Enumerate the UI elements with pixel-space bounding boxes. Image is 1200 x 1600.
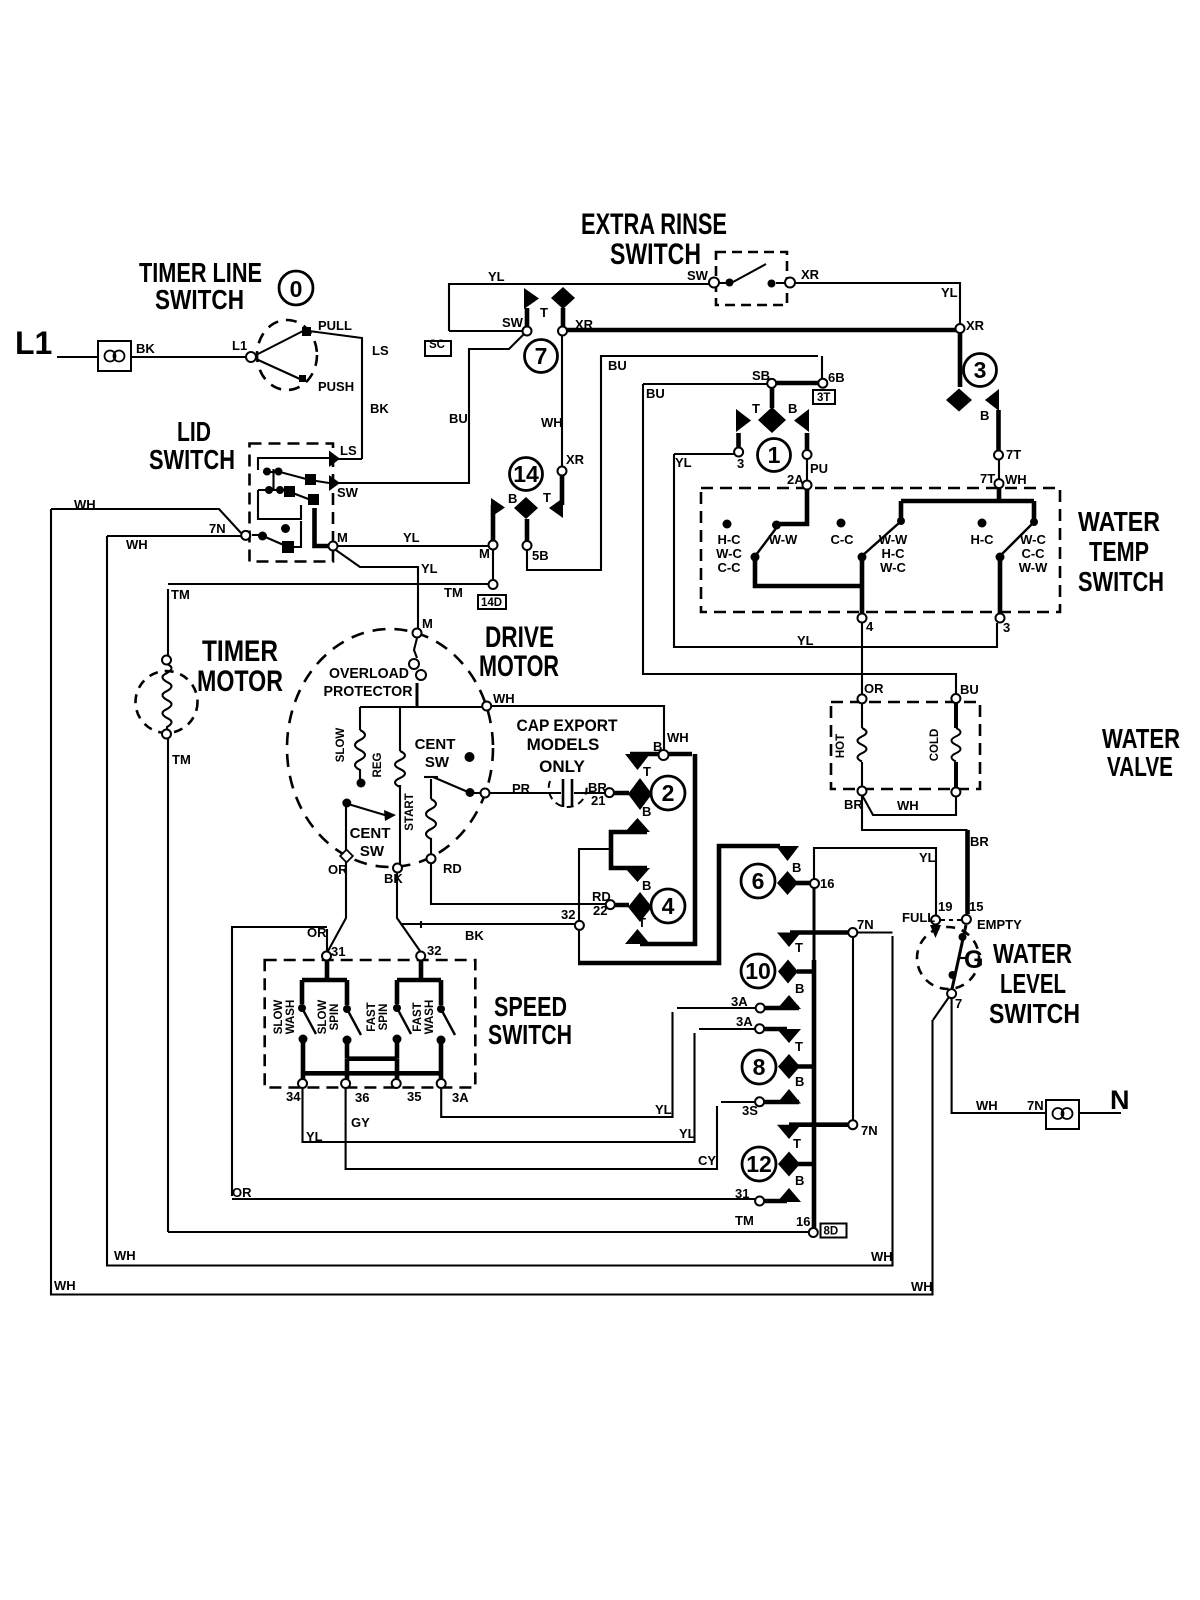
svg-text:WASH: WASH <box>285 1000 297 1035</box>
svg-text:LID: LID <box>177 416 211 447</box>
svg-text:BU: BU <box>960 682 979 697</box>
svg-text:MODELS: MODELS <box>527 735 600 754</box>
svg-text:7: 7 <box>955 996 962 1011</box>
svg-text:12: 12 <box>746 1151 772 1177</box>
svg-text:14: 14 <box>513 461 539 487</box>
svg-text:B: B <box>795 1074 804 1089</box>
svg-text:BK: BK <box>465 928 484 943</box>
svg-text:TEMP: TEMP <box>1089 536 1149 567</box>
svg-text:YL: YL <box>421 561 438 576</box>
svg-text:OR: OR <box>307 925 327 940</box>
svg-text:M: M <box>337 530 348 545</box>
svg-text:W-W: W-W <box>879 532 908 547</box>
svg-text:TM: TM <box>444 585 463 600</box>
svg-text:PR: PR <box>512 781 531 796</box>
svg-text:YL: YL <box>403 530 420 545</box>
svg-text:BU: BU <box>646 386 665 401</box>
svg-text:BR: BR <box>844 797 863 812</box>
svg-text:OR: OR <box>864 681 884 696</box>
svg-text:WH: WH <box>114 1248 136 1263</box>
svg-text:OR: OR <box>232 1185 252 1200</box>
svg-text:8D: 8D <box>824 1226 839 1238</box>
svg-text:W-C: W-C <box>1020 532 1046 547</box>
svg-text:B: B <box>795 981 804 996</box>
svg-text:3: 3 <box>1003 620 1010 635</box>
svg-text:COLD: COLD <box>929 729 941 762</box>
svg-text:21: 21 <box>591 793 605 808</box>
svg-text:BK: BK <box>384 871 403 886</box>
svg-text:H-C: H-C <box>970 532 994 547</box>
svg-text:6: 6 <box>752 868 765 894</box>
svg-text:SWITCH: SWITCH <box>488 1019 572 1050</box>
svg-text:WH: WH <box>667 730 689 745</box>
svg-text:0: 0 <box>290 276 303 302</box>
svg-text:T: T <box>543 490 551 505</box>
svg-text:SW: SW <box>425 754 450 771</box>
svg-text:B: B <box>653 739 662 754</box>
svg-text:L1: L1 <box>15 325 52 361</box>
svg-text:16: 16 <box>796 1214 810 1229</box>
svg-text:T: T <box>752 401 760 416</box>
svg-text:3A: 3A <box>452 1090 469 1105</box>
svg-text:YL: YL <box>679 1126 696 1141</box>
svg-text:35: 35 <box>407 1089 421 1104</box>
svg-text:YL: YL <box>941 285 958 300</box>
svg-text:T: T <box>795 1039 803 1054</box>
svg-text:OVERLOAD: OVERLOAD <box>329 665 409 682</box>
svg-text:3A: 3A <box>736 1014 753 1029</box>
svg-text:B: B <box>788 401 797 416</box>
svg-text:PROTECTOR: PROTECTOR <box>324 683 413 700</box>
svg-text:VALVE: VALVE <box>1107 751 1173 782</box>
svg-text:TIMER: TIMER <box>202 635 278 668</box>
svg-text:WH: WH <box>871 1249 893 1264</box>
svg-text:7: 7 <box>535 343 548 369</box>
svg-text:7N: 7N <box>1027 1098 1044 1113</box>
svg-text:B: B <box>792 860 801 875</box>
svg-text:GY: GY <box>351 1115 370 1130</box>
svg-text:OR: OR <box>328 862 348 877</box>
svg-text:BK: BK <box>136 341 155 356</box>
svg-text:BU: BU <box>449 411 468 426</box>
svg-text:SC: SC <box>429 339 445 351</box>
svg-text:31: 31 <box>331 944 345 959</box>
svg-text:B: B <box>795 1173 804 1188</box>
svg-text:ONLY: ONLY <box>539 757 585 776</box>
svg-text:19: 19 <box>938 899 952 914</box>
svg-text:TM: TM <box>735 1213 754 1228</box>
svg-text:4: 4 <box>866 619 874 634</box>
svg-text:WH: WH <box>493 691 515 706</box>
svg-text:RD: RD <box>592 889 611 904</box>
svg-text:SWITCH: SWITCH <box>610 238 701 271</box>
svg-text:EMPTY: EMPTY <box>977 917 1022 932</box>
svg-text:L1: L1 <box>232 338 247 353</box>
svg-text:M: M <box>479 546 490 561</box>
svg-text:FAST: FAST <box>412 1002 424 1031</box>
svg-text:T: T <box>643 764 651 779</box>
svg-text:CAP EXPORT: CAP EXPORT <box>517 716 619 735</box>
svg-text:B: B <box>642 878 651 893</box>
svg-text:22: 22 <box>593 903 607 918</box>
svg-text:YL: YL <box>797 633 814 648</box>
svg-text:BK: BK <box>370 401 389 416</box>
svg-text:4: 4 <box>662 893 675 919</box>
svg-text:LEVEL: LEVEL <box>1000 968 1066 999</box>
svg-text:SWITCH: SWITCH <box>1078 566 1164 597</box>
svg-text:START: START <box>404 793 416 830</box>
svg-text:T: T <box>638 915 646 930</box>
svg-text:YL: YL <box>306 1129 323 1144</box>
svg-text:SB: SB <box>752 368 770 383</box>
svg-text:B: B <box>508 491 517 506</box>
svg-text:REG: REG <box>372 752 384 777</box>
svg-text:WH: WH <box>54 1278 76 1293</box>
svg-text:LS: LS <box>340 443 357 458</box>
svg-text:SWITCH: SWITCH <box>155 284 244 315</box>
svg-text:7N: 7N <box>857 917 874 932</box>
svg-text:RD: RD <box>443 861 462 876</box>
svg-text:W-C: W-C <box>880 560 906 575</box>
svg-text:XR: XR <box>566 452 585 467</box>
svg-text:W-W: W-W <box>1019 560 1048 575</box>
svg-text:7T: 7T <box>1006 447 1021 462</box>
svg-text:MOTOR: MOTOR <box>197 665 283 698</box>
svg-text:34: 34 <box>286 1089 301 1104</box>
svg-text:W-C: W-C <box>716 546 742 561</box>
svg-text:8: 8 <box>753 1054 766 1080</box>
svg-text:EXTRA RINSE: EXTRA RINSE <box>581 208 727 241</box>
svg-text:3T: 3T <box>817 392 830 404</box>
svg-text:C-C: C-C <box>830 532 854 547</box>
svg-text:B: B <box>980 408 989 423</box>
svg-text:BU: BU <box>608 358 627 373</box>
svg-text:T: T <box>540 305 548 320</box>
svg-text:YL: YL <box>488 269 505 284</box>
svg-text:5B: 5B <box>532 548 549 563</box>
svg-text:WH: WH <box>74 497 96 512</box>
svg-text:XR: XR <box>966 318 985 333</box>
svg-text:FAST: FAST <box>366 1002 378 1031</box>
svg-text:31: 31 <box>735 1186 749 1201</box>
svg-text:SLOW: SLOW <box>273 1000 285 1035</box>
svg-text:SPIN: SPIN <box>378 1004 390 1031</box>
svg-text:WH: WH <box>897 798 919 813</box>
svg-text:WH: WH <box>541 415 563 430</box>
svg-text:14D: 14D <box>481 597 502 609</box>
svg-text:YL: YL <box>655 1102 672 1117</box>
svg-text:H-C: H-C <box>717 532 741 547</box>
svg-text:HOT: HOT <box>835 734 847 758</box>
svg-text:32: 32 <box>561 907 575 922</box>
svg-text:WH: WH <box>976 1098 998 1113</box>
svg-text:C-C: C-C <box>717 560 741 575</box>
svg-text:SW: SW <box>687 268 709 283</box>
svg-text:SWITCH: SWITCH <box>989 998 1080 1029</box>
svg-text:PULL: PULL <box>318 318 352 333</box>
svg-text:T: T <box>795 940 803 955</box>
svg-text:7T: 7T <box>980 471 995 486</box>
svg-text:3A: 3A <box>731 994 748 1009</box>
svg-text:1: 1 <box>768 442 781 468</box>
svg-text:16: 16 <box>820 876 834 891</box>
svg-text:7N: 7N <box>861 1123 878 1138</box>
svg-text:CENT: CENT <box>415 736 456 753</box>
svg-text:FULL: FULL <box>902 910 935 925</box>
svg-text:CENT: CENT <box>350 825 391 842</box>
svg-text:SW: SW <box>337 485 359 500</box>
svg-text:WATER: WATER <box>1102 723 1180 754</box>
svg-text:SPIN: SPIN <box>329 1004 341 1031</box>
svg-text:3S: 3S <box>742 1103 758 1118</box>
svg-text:T: T <box>793 1136 801 1151</box>
svg-text:SWITCH: SWITCH <box>149 444 235 475</box>
svg-text:LS: LS <box>372 343 389 358</box>
svg-text:M: M <box>422 616 433 631</box>
svg-text:SLOW: SLOW <box>335 728 347 763</box>
svg-text:WATER: WATER <box>993 938 1072 969</box>
svg-text:SW: SW <box>360 843 385 860</box>
svg-text:W-W: W-W <box>769 532 798 547</box>
svg-text:WH: WH <box>126 537 148 552</box>
svg-text:SLOW: SLOW <box>317 1000 329 1035</box>
svg-text:MOTOR: MOTOR <box>479 650 559 683</box>
svg-text:SPEED: SPEED <box>494 991 567 1022</box>
svg-text:WH: WH <box>1005 472 1027 487</box>
svg-text:TM: TM <box>172 752 191 767</box>
svg-text:WH: WH <box>911 1279 933 1294</box>
svg-text:WATER: WATER <box>1078 506 1160 537</box>
svg-text:10: 10 <box>745 958 771 984</box>
svg-text:CY: CY <box>698 1153 716 1168</box>
svg-text:TM: TM <box>171 587 190 602</box>
svg-text:SW: SW <box>502 315 524 330</box>
svg-text:3: 3 <box>737 456 744 471</box>
svg-text:PU: PU <box>810 461 828 476</box>
svg-text:H-C: H-C <box>881 546 905 561</box>
svg-text:32: 32 <box>427 943 441 958</box>
svg-text:3: 3 <box>974 357 987 383</box>
svg-text:WASH: WASH <box>424 1000 436 1035</box>
svg-text:C-C: C-C <box>1021 546 1045 561</box>
svg-text:7N: 7N <box>209 521 226 536</box>
svg-text:6B: 6B <box>828 370 845 385</box>
svg-text:XR: XR <box>801 267 820 282</box>
svg-text:15: 15 <box>969 899 983 914</box>
svg-text:YL: YL <box>919 850 936 865</box>
svg-text:XR: XR <box>575 317 594 332</box>
svg-text:2A: 2A <box>787 472 804 487</box>
svg-text:2: 2 <box>662 780 675 806</box>
svg-text:PUSH: PUSH <box>318 379 354 394</box>
svg-text:B: B <box>642 804 651 819</box>
svg-text:36: 36 <box>355 1090 369 1105</box>
svg-text:G: G <box>964 946 983 974</box>
svg-text:YL: YL <box>675 455 692 470</box>
svg-text:BR: BR <box>970 834 989 849</box>
svg-text:N: N <box>1110 1085 1130 1115</box>
